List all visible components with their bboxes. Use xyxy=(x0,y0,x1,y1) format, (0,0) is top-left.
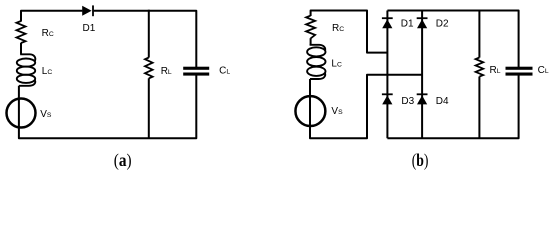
svg-text:D4: D4 xyxy=(436,96,449,107)
capacitor CL (a) xyxy=(183,67,209,76)
wire RL branch bottom (b) xyxy=(478,77,480,140)
diode D1 xyxy=(82,5,94,16)
svg-text:D1: D1 xyxy=(83,23,96,34)
resistor RC xyxy=(17,21,26,43)
wire source bottom step (b) xyxy=(310,75,422,139)
wire bridge bottom rail (b) xyxy=(387,75,518,138)
wire bridge branch 1 (b) xyxy=(386,11,388,139)
wire bridge top rail (b) xyxy=(387,11,518,68)
svg-text:RL: RL xyxy=(161,66,172,77)
wire resistor to inductor (b) xyxy=(310,38,312,45)
wire RL branch top (a) xyxy=(148,10,150,58)
wire RL branch top (b) xyxy=(478,10,480,58)
svg-text:RL: RL xyxy=(490,65,501,76)
diode D1 (b) xyxy=(382,17,393,28)
wire bridge branch 2 (b) xyxy=(421,11,423,139)
svg-text:D3: D3 xyxy=(401,96,414,107)
resistor RL (a) xyxy=(145,58,153,79)
diode D2 xyxy=(417,17,428,28)
diode D3 xyxy=(382,93,393,104)
wire top-left of (a) xyxy=(21,11,82,22)
wire resistor to inductor xyxy=(20,43,22,55)
inductor LC (b) xyxy=(307,45,325,79)
svg-text:(a): (a) xyxy=(114,150,132,170)
svg-text:CL: CL xyxy=(219,66,230,77)
source VS xyxy=(7,99,36,128)
resistor RL (b) xyxy=(476,58,484,77)
svg-text:D1: D1 xyxy=(401,18,414,29)
wire top-right of (a) xyxy=(94,11,197,67)
svg-text:D2: D2 xyxy=(436,18,449,29)
svg-text:VS: VS xyxy=(331,106,343,117)
svg-text:RC: RC xyxy=(42,28,54,39)
inductor LC xyxy=(17,54,36,86)
caption (a) xyxy=(114,150,132,170)
svg-text:(b): (b) xyxy=(412,151,429,170)
wire RL branch bottom (a) xyxy=(148,78,150,139)
svg-text:LC: LC xyxy=(42,66,53,77)
svg-text:CL: CL xyxy=(538,65,549,76)
wire source top step (b) xyxy=(311,11,388,53)
resistor RC (b) xyxy=(306,16,315,39)
svg-text:RC: RC xyxy=(332,23,344,34)
capacitor CL (b) xyxy=(506,67,533,76)
source VS (b) xyxy=(295,96,325,126)
caption (b) xyxy=(412,151,429,170)
svg-text:LC: LC xyxy=(331,59,342,70)
wire bottom of (a) xyxy=(19,75,196,138)
diode D4 xyxy=(417,93,428,104)
svg-text:VS: VS xyxy=(40,109,52,120)
